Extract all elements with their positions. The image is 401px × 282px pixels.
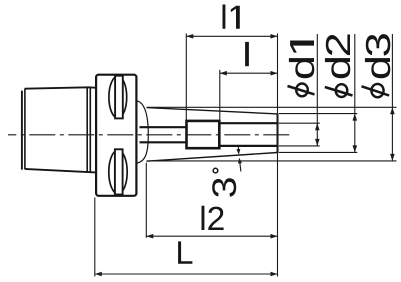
inner cylinder bottom line	[140, 141, 187, 143]
lower screw slot	[115, 149, 123, 194]
dimension d3 extension top	[147, 106, 397, 108]
dimension l2	[146, 206, 277, 239]
upper screw slot ellipse	[109, 76, 127, 118]
dimension d1 line	[315, 34, 320, 147]
label phi d3	[362, 34, 391, 97]
back cylinder left chamfer line	[24, 89, 26, 169]
extension line collar left	[185, 33, 187, 119]
extension line flange left	[94, 198, 96, 277]
dimension d1 extension top	[279, 122, 320, 124]
flange body	[96, 75, 136, 196]
back cylinder left end face	[21, 91, 23, 170]
dimension d2 extension bottom	[279, 151, 358, 153]
label 3 degrees	[212, 178, 236, 197]
extension line tip face	[277, 34, 279, 277]
dimension d3 line	[390, 34, 395, 162]
back cylinder right chamfer line	[86, 87, 88, 172]
pilot cylinder top line	[220, 122, 278, 124]
label phi d1	[288, 41, 315, 97]
angle 3 degrees upper arrow	[236, 147, 240, 155]
collar block	[187, 121, 220, 148]
neck fillet contour	[137, 101, 148, 163]
dimension l	[220, 42, 278, 76]
degree mark	[213, 168, 218, 173]
dimension d2 extension top	[279, 113, 358, 115]
inner cylinder top line	[140, 126, 187, 128]
back cylinder top edge	[25, 87, 96, 88]
taper top line	[147, 108, 278, 114]
pilot cylinder bottom line	[220, 145, 278, 147]
back cylinder bottom edge	[25, 169, 96, 173]
label phi d2	[325, 34, 353, 97]
dimension d3 extension bottom	[147, 160, 397, 162]
dimension L	[95, 241, 278, 276]
angle 3 degrees lower arrow	[238, 158, 242, 172]
lower screw slot ellipse	[109, 150, 127, 194]
dimension l1	[186, 5, 277, 39]
back cylinder right end line	[89, 87, 91, 172]
centerline	[8, 134, 291, 136]
extension line collar right	[219, 70, 221, 120]
dimension d1 extension bottom	[279, 145, 320, 147]
tip end face	[277, 114, 279, 153]
dimension d2 line	[353, 34, 358, 153]
upper screw slot	[115, 76, 123, 119]
taper bottom line	[147, 153, 278, 162]
extension line taper start	[145, 163, 147, 238]
